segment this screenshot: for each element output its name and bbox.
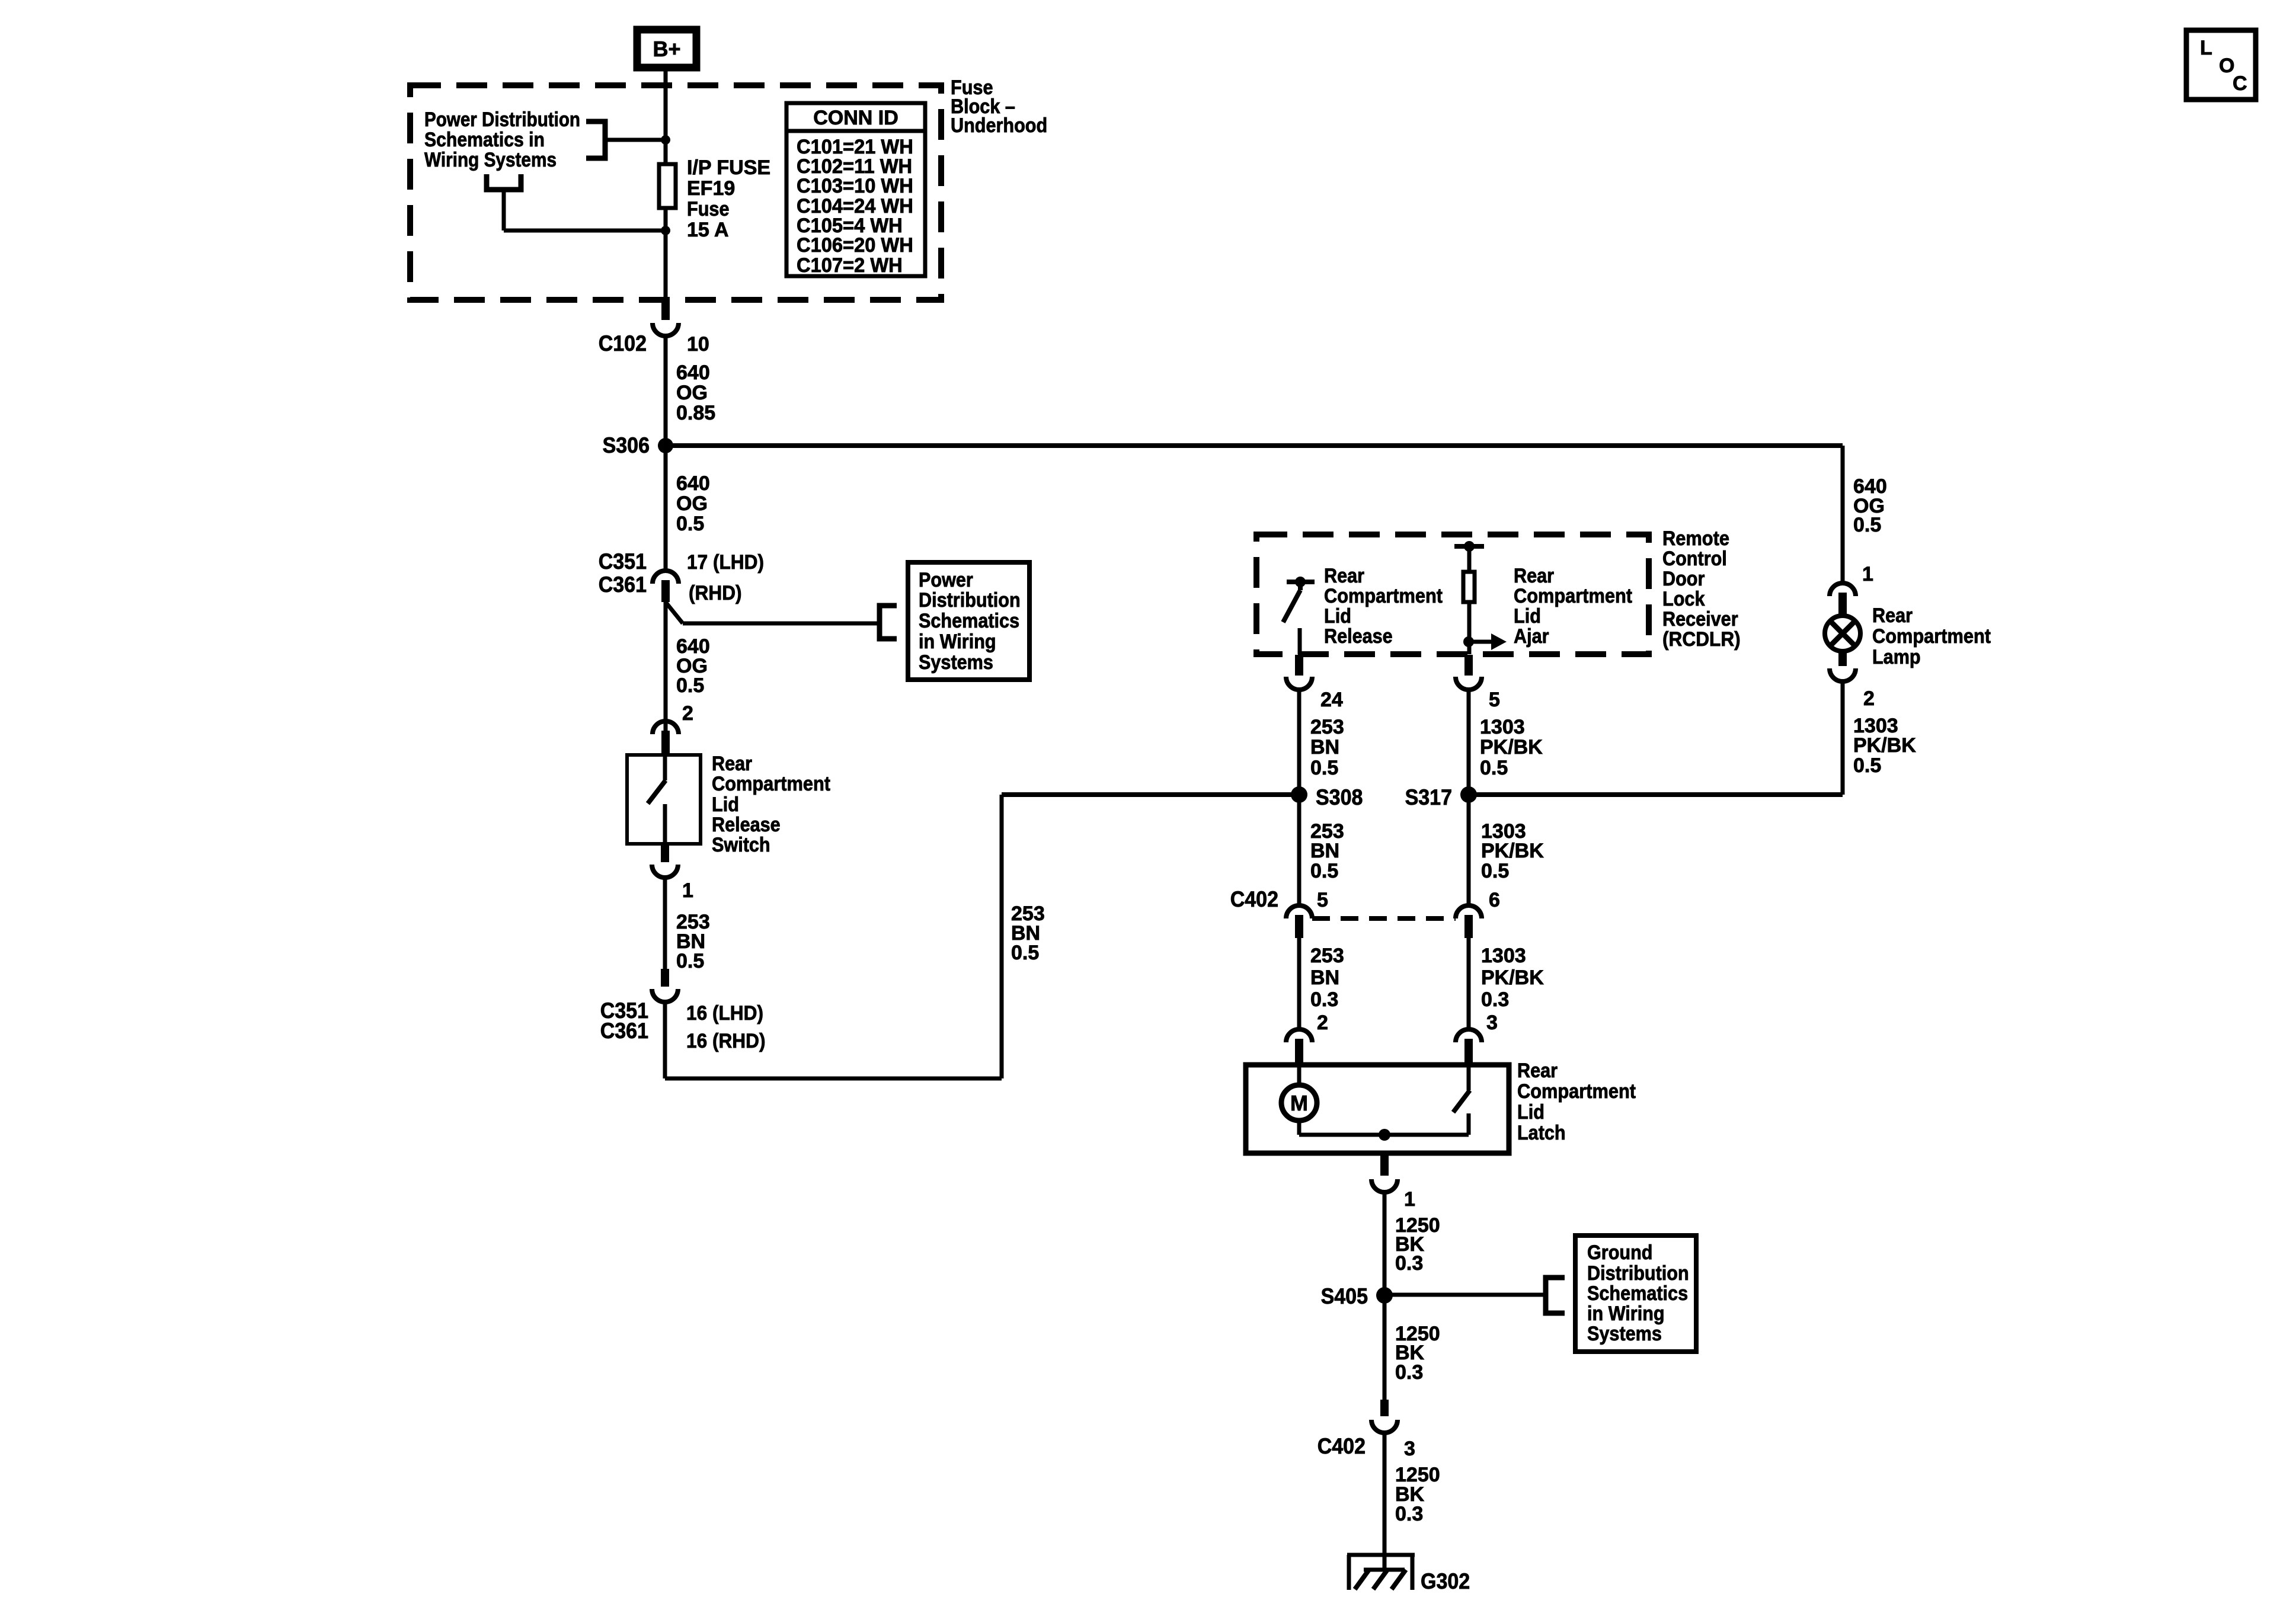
svg-text:Distribution: Distribution (919, 589, 1021, 612)
svg-text:Latch: Latch (1517, 1122, 1566, 1144)
svg-text:PK/BK: PK/BK (1853, 734, 1916, 757)
svg-text:Compartment: Compartment (1514, 585, 1632, 607)
svg-text:Lamp: Lamp (1872, 646, 1921, 668)
svg-text:G302: G302 (1421, 1569, 1470, 1593)
svg-text:0.3: 0.3 (1481, 988, 1509, 1011)
svg-text:Rear: Rear (1514, 565, 1554, 587)
svg-text:0.5: 0.5 (1853, 514, 1881, 536)
svg-text:Distribution: Distribution (1587, 1262, 1689, 1285)
svg-text:C107=2 WH: C107=2 WH (797, 254, 903, 277)
svg-text:BN: BN (1310, 840, 1339, 862)
svg-text:Switch: Switch (712, 834, 770, 856)
svg-text:S308: S308 (1316, 785, 1363, 809)
svg-text:17 (LHD): 17 (LHD) (687, 551, 764, 574)
svg-text:M: M (1290, 1091, 1308, 1115)
svg-text:2: 2 (1863, 687, 1875, 710)
svg-text:3: 3 (1404, 1438, 1415, 1460)
svg-text:C103=10 WH: C103=10 WH (797, 175, 913, 197)
svg-text:BN: BN (1310, 966, 1339, 989)
svg-text:S405: S405 (1321, 1284, 1368, 1308)
svg-text:C: C (2233, 72, 2247, 95)
svg-text:Remote: Remote (1662, 527, 1729, 550)
svg-text:Ground: Ground (1587, 1241, 1653, 1264)
svg-text:Rear: Rear (712, 753, 752, 775)
svg-text:5: 5 (1489, 689, 1500, 711)
svg-text:3: 3 (1486, 1012, 1498, 1034)
svg-text:Lid: Lid (1514, 605, 1541, 628)
svg-text:L: L (2200, 37, 2212, 59)
svg-text:Compartment: Compartment (1324, 585, 1443, 607)
svg-text:1: 1 (1862, 563, 1873, 585)
svg-text:0.5: 0.5 (676, 674, 704, 697)
svg-text:15 A: 15 A (687, 219, 729, 241)
svg-text:6: 6 (1489, 889, 1500, 911)
svg-text:C361: C361 (600, 1019, 648, 1043)
svg-text:0.5: 0.5 (1310, 757, 1338, 779)
svg-text:I/P FUSE: I/P FUSE (687, 156, 770, 179)
svg-text:Wiring Systems: Wiring Systems (424, 149, 557, 171)
svg-text:S306: S306 (603, 433, 650, 457)
svg-text:Compartment: Compartment (712, 773, 830, 795)
svg-text:1303: 1303 (1481, 945, 1526, 967)
svg-text:0.5: 0.5 (1481, 860, 1509, 882)
svg-text:Rear: Rear (1872, 604, 1913, 627)
svg-text:B+: B+ (653, 37, 680, 61)
svg-text:Compartment: Compartment (1872, 625, 1991, 648)
svg-text:0.5: 0.5 (676, 950, 704, 972)
svg-text:Lid: Lid (1324, 605, 1351, 628)
svg-text:0.3: 0.3 (1310, 988, 1338, 1011)
svg-text:0.3: 0.3 (1395, 1503, 1423, 1525)
svg-text:640: 640 (676, 472, 710, 495)
svg-text:C351: C351 (599, 549, 647, 574)
svg-text:16 (LHD): 16 (LHD) (686, 1002, 763, 1025)
svg-text:in Wiring: in Wiring (919, 630, 996, 653)
svg-text:253: 253 (1310, 945, 1344, 967)
svg-text:Release: Release (1324, 625, 1393, 648)
svg-text:BN: BN (1310, 736, 1339, 758)
svg-text:Compartment: Compartment (1517, 1080, 1636, 1103)
svg-text:Ajar: Ajar (1514, 625, 1549, 648)
svg-text:Release: Release (712, 814, 781, 836)
svg-text:Lid: Lid (712, 793, 739, 816)
svg-text:(RCDLR): (RCDLR) (1662, 628, 1741, 651)
svg-text:Rear: Rear (1324, 565, 1364, 587)
svg-text:0.3: 0.3 (1395, 1361, 1423, 1384)
svg-text:Door: Door (1662, 568, 1705, 590)
svg-text:16 (RHD): 16 (RHD) (686, 1030, 766, 1052)
svg-text:CONN ID: CONN ID (813, 107, 898, 129)
svg-text:C361: C361 (599, 572, 647, 597)
svg-text:640: 640 (676, 361, 710, 384)
svg-text:Lid: Lid (1517, 1101, 1544, 1124)
svg-text:C106=20 WH: C106=20 WH (797, 234, 913, 257)
svg-text:S317: S317 (1405, 785, 1452, 809)
svg-text:OG: OG (676, 382, 708, 404)
svg-text:PK/BK: PK/BK (1480, 736, 1543, 758)
svg-text:Schematics: Schematics (919, 610, 1019, 632)
svg-text:Power Distribution: Power Distribution (424, 108, 580, 131)
svg-text:Control: Control (1662, 548, 1727, 570)
svg-text:Systems: Systems (1587, 1323, 1662, 1345)
svg-text:Schematics in: Schematics in (424, 129, 545, 151)
svg-text:0.5: 0.5 (1480, 757, 1508, 779)
svg-text:0.85: 0.85 (676, 402, 715, 424)
svg-text:Fuse: Fuse (687, 198, 730, 220)
svg-text:Power: Power (919, 569, 973, 591)
svg-text:in Wiring: in Wiring (1587, 1302, 1665, 1325)
svg-text:PK/BK: PK/BK (1481, 840, 1544, 862)
svg-text:0.5: 0.5 (1310, 860, 1338, 882)
svg-text:1303: 1303 (1480, 716, 1525, 738)
svg-text:C402: C402 (1230, 887, 1278, 911)
svg-text:Underhood: Underhood (951, 114, 1047, 137)
svg-text:Rear: Rear (1517, 1060, 1558, 1082)
svg-text:2: 2 (1317, 1012, 1328, 1034)
svg-text:EF19: EF19 (687, 177, 735, 200)
svg-text:PK/BK: PK/BK (1481, 966, 1544, 989)
svg-text:253: 253 (1310, 716, 1344, 738)
svg-text:Schematics: Schematics (1587, 1282, 1688, 1305)
svg-text:Lock: Lock (1662, 588, 1705, 610)
svg-text:0.5: 0.5 (676, 513, 704, 535)
svg-text:5: 5 (1317, 889, 1328, 911)
svg-text:0.5: 0.5 (1853, 754, 1881, 777)
svg-text:C402: C402 (1318, 1434, 1366, 1458)
svg-text:Receiver: Receiver (1662, 608, 1738, 630)
svg-text:C102: C102 (599, 331, 647, 356)
svg-text:10: 10 (687, 333, 709, 356)
svg-text:0.5: 0.5 (1011, 942, 1039, 964)
svg-text:0.3: 0.3 (1395, 1252, 1423, 1275)
svg-text:OG: OG (676, 492, 708, 515)
svg-text:1: 1 (682, 879, 693, 902)
svg-text:(RHD): (RHD) (689, 582, 742, 604)
svg-text:2: 2 (682, 702, 693, 725)
svg-text:1: 1 (1404, 1188, 1415, 1211)
svg-text:24: 24 (1320, 689, 1343, 711)
svg-text:Systems: Systems (919, 651, 993, 674)
